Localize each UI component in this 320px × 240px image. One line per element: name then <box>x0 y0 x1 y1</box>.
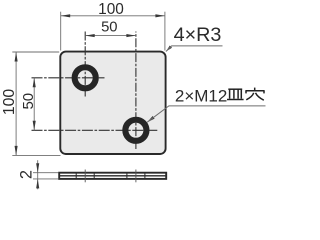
dimension 2: extension line bottom <box>33 178 59 180</box>
leader 2xM12: leader line <box>147 106 265 122</box>
dimension 100 left: extension line bottom <box>12 154 60 156</box>
dimension 100 top: left arrowhead <box>61 14 70 17</box>
svg-text:50: 50 <box>101 20 117 36</box>
svg-text:100: 100 <box>98 1 124 18</box>
dimension 50 left: top arrowhead <box>33 78 36 88</box>
dimension 50 top: right arrowhead <box>126 34 136 37</box>
dimension 2: dimension line <box>37 160 39 189</box>
dimension 100 top: extension line right <box>164 12 166 51</box>
svg-text:2×M12: 2×M12 <box>175 87 227 106</box>
dimension 50 left: bottom arrowhead <box>33 121 36 131</box>
svg-text:4×R3: 4×R3 <box>174 24 222 46</box>
dimension 100 top: right arrowhead <box>155 14 165 17</box>
svg-text:100: 100 <box>1 89 18 116</box>
dimension 50 top: left arrowhead <box>85 34 95 37</box>
label kanji sara (dish) strokes <box>227 89 244 99</box>
leader 4xR3: leader line <box>166 46 223 52</box>
leader 2xM12: arrowhead at hole 2 <box>147 116 154 122</box>
centerline hole 2 vertical <box>135 32 137 150</box>
centerline hole 1 vertical <box>84 32 86 97</box>
dimension 100 top: extension line left <box>60 12 62 51</box>
dimension 50 top: dimension line <box>85 35 136 37</box>
dimension 100 top: dimension line <box>61 15 165 17</box>
centerline hole 1 horizontal <box>32 77 105 79</box>
countersunk hole 1 (top-left) <box>75 67 96 88</box>
centerline hole 2 horizontal <box>32 129 158 131</box>
dimension 2: bottom arrowhead (pointing up) <box>36 179 39 189</box>
side view hole 1 edges <box>75 173 77 179</box>
dimension 100 left: extension line top <box>12 51 59 53</box>
dimension 2: top arrowhead (pointing down) <box>36 163 39 173</box>
dimension 100 left: top arrowhead <box>15 52 18 62</box>
dimension 50 left: dimension line <box>33 78 35 131</box>
plate (top view, 100x100 with R3 corners) <box>60 52 165 154</box>
side view hole 2 edges <box>126 173 128 179</box>
dimension 2: extension line top <box>33 172 59 174</box>
leader 4xR3: arrowhead at plate corner <box>166 46 172 52</box>
label kanji ana (hole) strokes <box>245 88 264 101</box>
dimension 100 left: dimension line <box>15 52 17 155</box>
dimension 100 left: bottom arrowhead <box>15 146 18 156</box>
svg-text:50: 50 <box>20 93 37 110</box>
svg-text:2: 2 <box>18 170 36 179</box>
side view hole 1 centerline tick <box>84 170 86 183</box>
side view plate bar <box>59 173 166 179</box>
side view mid line <box>60 175 166 177</box>
side view hole 2 centerline tick <box>135 170 137 183</box>
countersunk hole 2 (bottom-right) <box>125 120 146 141</box>
